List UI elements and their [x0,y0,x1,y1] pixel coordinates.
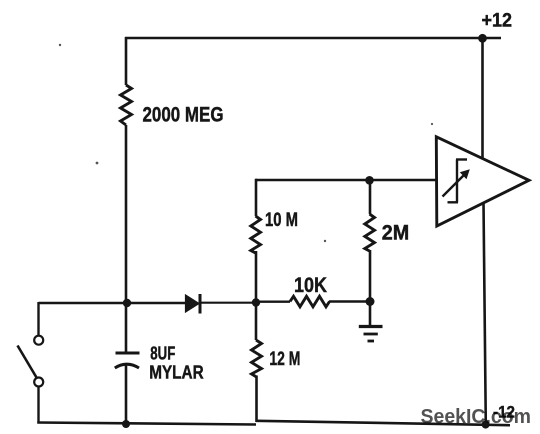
resistor 2 M [365,214,375,251]
label 2000 MEG [143,104,224,127]
label MYLAR [149,361,204,382]
junction dot capacitor bottom [122,420,130,428]
speck marks [59,44,433,242]
switch S1 bottom terminal [34,378,43,387]
wire node A to 12M [255,303,258,340]
wire left column upper [125,37,128,85]
label 10K [294,274,327,297]
label +12 [482,10,513,31]
junction dot at capacitor top node [123,299,131,307]
svg-text:10 M: 10 M [265,210,298,231]
resistor 10K [290,296,330,307]
svg-text:+12: +12 [482,10,513,31]
wire left horizontal to diode [39,302,187,305]
wire 12M to bottom rail [255,376,258,423]
switch S1 top terminal [34,336,43,345]
svg-text:8UF: 8UF [150,342,175,363]
op-amp U1 triangle [436,137,529,226]
wire switch to bottom rail [37,386,39,423]
wire 10K right lead [329,300,370,302]
wire op-amp bottom to -12 rail [484,203,486,426]
label 10 M [265,210,298,231]
wire switch drop [37,302,39,336]
resistor 12 M [252,340,262,377]
ground symbol [359,327,383,342]
capacitor C1 curved plate [115,364,139,368]
svg-text:2M: 2M [382,222,410,245]
resistor 10 M [251,216,261,253]
op-amp internal slope symbol [443,160,470,203]
label 8 UF [150,342,175,363]
svg-text:2000 MEG: 2000 MEG [143,104,224,127]
junction dot +12 [478,34,487,43]
svg-text:MYLAR: MYLAR [149,361,204,382]
capacitor C1 top plate [116,352,140,355]
switch S1 arm [18,346,37,378]
wire capacitor to bottom rail [125,366,128,425]
wire left column lower [125,125,128,352]
wire ground stub [369,302,372,326]
diode D1 [186,294,201,314]
svg-text:SeekIC.com: SeekIC.com [421,406,532,428]
label -12 [493,404,515,422]
wire middle column top corner [255,179,258,216]
svg-text:10K: 10K [294,274,327,297]
wire 2M lower [369,250,372,302]
wire summing node to op-amp input [256,179,436,182]
wire diode to node A [200,302,257,304]
wire 2M upper [369,180,372,214]
wire top +12 rail [125,37,501,40]
junction dot node A [252,298,260,306]
watermark SeekIC.com [421,406,532,428]
label 2M [382,222,410,245]
wire bottom rail right segment [256,421,510,425]
junction dot 2M top [365,176,374,185]
wire 10M to node A [255,251,258,303]
svg-text:12 M: 12 M [269,348,300,370]
resistor 2000 MEG [121,85,132,125]
wire bottom rail left segment [37,423,256,425]
label 12 M [269,348,300,370]
junction dot ground node [366,297,375,306]
wire +12 down to op-amp top [481,38,484,159]
junction dot -12 node [482,421,490,429]
wire 10K left lead [256,301,290,303]
